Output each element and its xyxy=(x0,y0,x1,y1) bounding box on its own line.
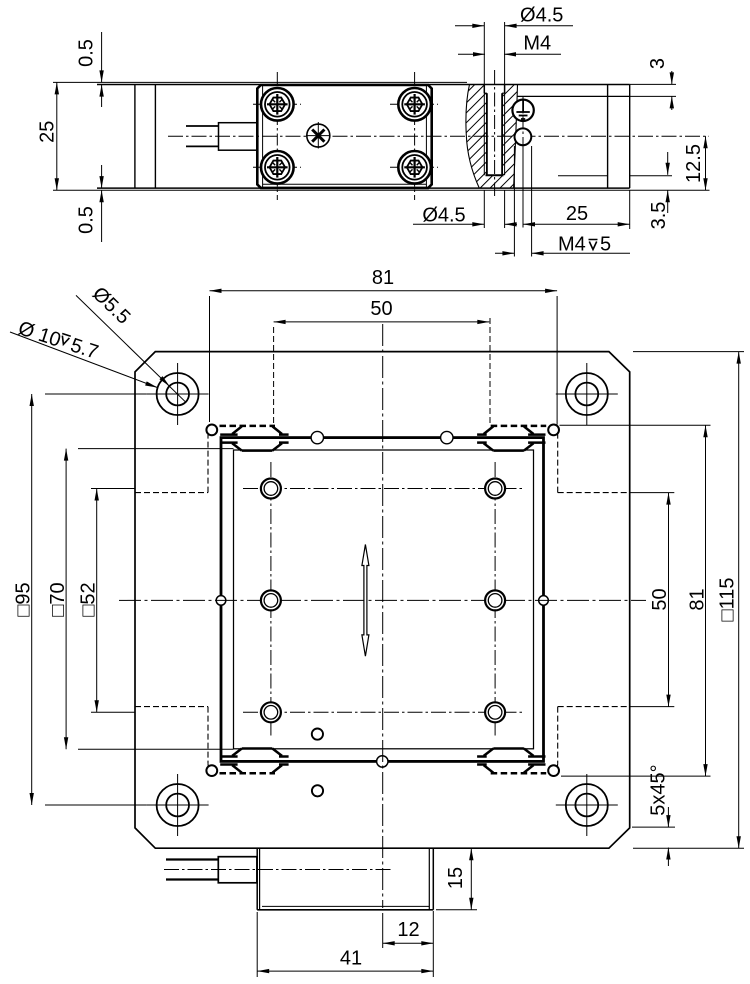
dim M4 top xyxy=(458,33,561,57)
cable connector xyxy=(219,123,258,151)
svg-text:41: 41 xyxy=(340,948,362,970)
edge circle left xyxy=(216,596,226,606)
center pozidriv screw xyxy=(307,124,331,148)
corner hole top-right xyxy=(556,363,618,425)
bottom surface line (base, -0.5) xyxy=(53,189,710,191)
broken-out section hatch xyxy=(466,84,518,188)
grounding screw symbol xyxy=(512,100,533,121)
small hole 2 xyxy=(312,785,323,796)
dim 0.5 top-left xyxy=(76,32,104,107)
main horizontal centerline xyxy=(168,135,709,137)
torx screw bottom-left xyxy=(261,151,294,184)
corner ball top-left xyxy=(206,425,217,436)
svg-text:M4: M4 xyxy=(558,234,586,256)
hole wall left (O4.5) xyxy=(483,84,485,175)
side M4 hole circle xyxy=(515,128,532,145)
svg-text:0.5: 0.5 xyxy=(76,39,98,67)
dim 5x45 chamfer xyxy=(632,764,675,866)
dim square115 right xyxy=(633,352,744,849)
break line right (wavy) xyxy=(514,84,518,188)
svg-text:3: 3 xyxy=(647,58,669,69)
clamp flexure bottom-left xyxy=(220,749,288,773)
moving platform (thick square) xyxy=(221,438,544,762)
clamp hidden edge bottom-right (thick dashes) xyxy=(491,772,547,775)
edge circle right xyxy=(539,596,549,606)
hole wall right (O4.5) xyxy=(504,84,506,175)
screw row tick bottom-left xyxy=(253,166,301,168)
grid hole r2c1 xyxy=(261,590,281,610)
svg-text:25: 25 xyxy=(566,203,588,225)
dim square95 left xyxy=(13,394,147,805)
hole centerline xyxy=(494,70,496,196)
centerline col1 xyxy=(270,462,272,738)
motor wires xyxy=(166,860,218,880)
motor connector xyxy=(218,857,257,883)
main vertical centerline xyxy=(382,324,384,948)
leader O10 depth 5.7 xyxy=(10,317,158,387)
thread minor wall right xyxy=(501,93,503,175)
corner ball bottom-right xyxy=(548,765,559,776)
screw row tick top-left xyxy=(253,103,301,105)
dim 12 bottom xyxy=(383,911,434,949)
plate inner line right xyxy=(425,86,427,187)
svg-text:□95: □95 xyxy=(13,582,35,616)
leader O5.5 xyxy=(76,283,186,403)
clamp flexure top-right xyxy=(477,426,545,450)
dim M4 depth 5 bottom xyxy=(495,234,630,256)
hole step lines xyxy=(484,92,504,94)
centerline col3 xyxy=(494,462,496,738)
svg-text:25: 25 xyxy=(36,121,58,143)
center screw vertical tick xyxy=(317,122,319,150)
svg-text:5x45°: 5x45° xyxy=(648,764,670,815)
clamp hidden edge bottom-left (thick dashes) xyxy=(220,772,276,775)
svg-text:3.5: 3.5 xyxy=(648,202,670,230)
svg-text:50: 50 xyxy=(649,588,671,610)
grid hole r3c3 xyxy=(485,702,505,722)
right step line (3mm ledge) xyxy=(518,95,677,97)
dim 0.5 bottom-left xyxy=(76,165,104,242)
right end cap vertical 2 (body right edge) xyxy=(629,85,631,189)
torx screw bottom-right xyxy=(398,151,431,184)
clamp flexure top-left xyxy=(220,426,288,450)
dim 81 right xyxy=(560,425,711,776)
corner ball top-right xyxy=(548,425,559,436)
dim 50 right xyxy=(630,493,675,707)
svg-text:50: 50 xyxy=(370,298,392,320)
dim 41 bottom xyxy=(257,912,433,977)
grid hole r1c1 xyxy=(261,479,281,499)
top mounting plate (thick) xyxy=(257,85,431,188)
svg-text:15: 15 xyxy=(445,867,467,889)
clamp hidden edge top-right (thick dashes) xyxy=(491,425,547,428)
left end cap vertical 1 xyxy=(134,85,136,189)
cable wires left xyxy=(186,126,219,146)
screw column centerline left xyxy=(276,72,278,200)
dim square52 left xyxy=(78,489,136,713)
plate inner line left xyxy=(262,86,264,187)
svg-text:12.5: 12.5 xyxy=(683,144,705,183)
base plate outline (chamfered square) xyxy=(135,352,630,849)
O4.5 hole extension lines above xyxy=(484,22,504,84)
left end cap vertical 2 xyxy=(154,85,156,189)
plate inner line bottom xyxy=(263,183,427,185)
svg-text:□115: □115 xyxy=(717,578,739,622)
pocket hidden line bottom-left xyxy=(135,707,216,773)
right end cap vertical 1 xyxy=(607,85,609,189)
motor cable centerline xyxy=(164,869,392,871)
svg-text:M4: M4 xyxy=(523,33,551,55)
pocket hidden line top-right xyxy=(550,426,630,492)
bottom edge of moving part xyxy=(97,187,630,189)
dim 50 top xyxy=(274,298,490,426)
pocket hidden line top-left xyxy=(135,426,216,492)
centerline row3 xyxy=(243,711,523,713)
dim 3 right xyxy=(630,58,676,110)
top edge of base body xyxy=(97,84,630,86)
motion direction arrow xyxy=(362,545,369,657)
platform inner edge (thin square) xyxy=(234,450,534,749)
side hole centerline vertical xyxy=(522,96,524,228)
svg-text:5: 5 xyxy=(600,234,611,256)
torx screw top-right xyxy=(398,88,431,121)
break line left (wavy) xyxy=(466,84,479,188)
O4.5 hole extension lines below xyxy=(484,190,504,228)
edge circle top 1 xyxy=(311,431,323,443)
svg-text:0.5: 0.5 xyxy=(76,206,98,234)
top surface line (raised platform, +0.5) xyxy=(53,81,467,83)
svg-text:Ø4.5: Ø4.5 xyxy=(520,5,563,27)
grid hole r3c1 xyxy=(261,702,281,722)
grid hole r1c3 xyxy=(485,479,505,499)
svg-text:81: 81 xyxy=(372,267,394,289)
thread minor wall left xyxy=(486,93,488,175)
corner ball bottom-left xyxy=(206,765,217,776)
svg-text:Ø4.5: Ø4.5 xyxy=(422,205,465,227)
edge circle bottom xyxy=(377,756,388,767)
edge circle top 2 xyxy=(441,431,453,443)
corner hole top-left xyxy=(147,363,209,425)
M4 depth-5 extension lines xyxy=(514,146,531,257)
dim 81 top xyxy=(210,267,558,425)
main horizontal centerline xyxy=(119,599,646,601)
svg-text:□70: □70 xyxy=(47,582,69,616)
dim 25 left xyxy=(36,82,59,190)
pocket hidden line bottom-right xyxy=(550,707,630,773)
motor block bottom xyxy=(257,906,433,909)
small hole 1 xyxy=(312,729,323,740)
centerline row1 xyxy=(243,488,523,490)
hidden hole bottom line right side xyxy=(558,175,672,177)
grid hole r2c3 xyxy=(485,590,505,610)
motor block right edge (double) xyxy=(429,848,433,910)
clamp hidden edge top-left (thick dashes) xyxy=(220,425,276,428)
torx screw top-left xyxy=(261,88,294,121)
corner hole bottom-left xyxy=(147,774,209,836)
svg-text:□52: □52 xyxy=(78,582,100,616)
screw column centerline right xyxy=(414,72,416,200)
screw row tick top-right xyxy=(390,103,438,105)
svg-text:81: 81 xyxy=(687,588,709,610)
thread bottom xyxy=(486,174,504,176)
dim 15 bottom right xyxy=(436,848,477,910)
dim square70 left xyxy=(47,449,234,750)
dim 12.5 right xyxy=(683,136,708,190)
dim 3.5 right xyxy=(648,152,670,229)
dim O4.5 top xyxy=(455,5,573,29)
clamp flexure bottom-right xyxy=(477,749,545,773)
dim O4.5 bottom xyxy=(413,205,517,227)
corner hole bottom-right xyxy=(556,774,618,836)
dim 25 bottom (side view) xyxy=(523,190,630,229)
motor block left edge (double) xyxy=(257,848,259,910)
screw row tick bottom-right xyxy=(390,166,438,168)
svg-text:12: 12 xyxy=(397,919,419,941)
